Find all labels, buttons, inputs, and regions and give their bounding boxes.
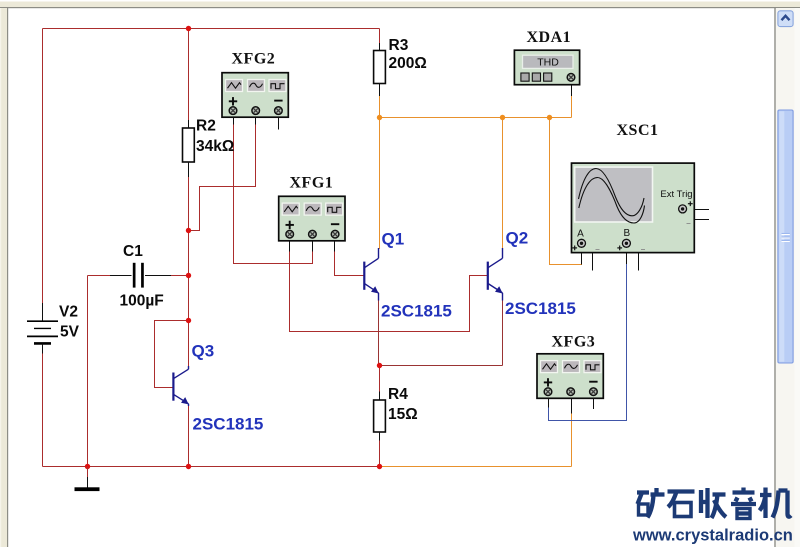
wire R4 top lead [379,366,381,394]
svg-text:Ext Trig: Ext Trig [660,189,692,200]
value 15ohm [388,406,418,423]
wire XFG2 mid pin staircase to R2 bottom node [189,124,256,231]
wire XFG1 plus pin down, across, up to Q2 base [290,251,488,332]
wire orange up to XDA1 terminal [571,95,573,118]
wire ground rail red segment [43,466,381,468]
svg-text:Q1: Q1 [382,230,405,249]
value 100uF [120,293,164,310]
svg-text:R2: R2 [196,118,216,135]
svg-text:2SC1815: 2SC1815 [193,415,264,434]
value Q1 2SC1815 [381,302,452,321]
transistor Q1 [364,248,378,301]
svg-text:15Ω: 15Ω [388,406,418,423]
label XFG3 [552,334,596,351]
value 200ohm [389,55,427,72]
function generator XFG3 [537,354,603,414]
svg-text:XSC1: XSC1 [617,122,659,139]
label XFG2 [232,51,276,68]
wire Q3 emitter down to ground rail [188,405,190,467]
wire center vertical: R2 to C1 node and Q3 node [188,176,190,321]
svg-text:XFG3: XFG3 [552,334,596,351]
label XDA1 [527,29,572,46]
svg-text:R3: R3 [389,37,409,54]
wire orange down to Q1 collector [379,118,381,250]
svg-text:THD: THD [537,56,559,68]
ground [75,477,100,491]
capacitor C1 [110,263,171,288]
watermark logo text [637,488,791,519]
wire top rail [43,28,380,30]
scrollbar thumb [778,110,793,363]
wire Q3 base loop [155,321,189,388]
wire ground stub [87,467,89,479]
junction dots orange [377,115,552,120]
transistor Q3 [173,366,188,406]
scrollbar track [776,8,800,547]
wire XFG1 minus pin to Q1 base [335,251,364,276]
scrollbar up button [778,11,793,27]
label R4 [388,386,408,403]
wire orange down to Q2 collector [502,118,504,250]
label Q2 [506,229,529,248]
resistor R3 [374,43,386,96]
svg-text:XDA1: XDA1 [527,29,572,46]
distortion analyzer XDA1 [514,50,579,96]
svg-text:2SC1815: 2SC1815 [505,299,576,318]
label R2 [196,118,216,135]
value 5V [60,324,80,341]
wire orange scope branch down and to A input [550,118,583,265]
svg-text:Q3: Q3 [192,342,215,361]
svg-text:R4: R4 [388,386,408,403]
wire left rail lower (battery - to ground rail) [42,353,44,467]
label Q3 [192,342,215,361]
resistor R2 [183,120,195,177]
svg-text:200Ω: 200Ω [389,55,427,72]
svg-text:www.crystalradio.cn: www.crystalradio.cn [632,527,793,545]
svg-text:5V: 5V [60,324,80,341]
wire collector rail orange horizontal [380,117,572,119]
label Q1 [382,230,405,249]
svg-text:Q2: Q2 [506,229,529,248]
svg-text:V2: V2 [59,304,78,321]
resistor R4 [374,392,386,441]
wire emitter rail Q1-Q2 [379,365,503,367]
transistor Q2 [488,248,503,301]
wire R4 bottom lead to ground rail [379,439,381,467]
oscilloscope XSC1 [572,163,710,270]
svg-text:2SC1815: 2SC1815 [381,302,452,321]
value Q2 2SC1815 [505,299,576,318]
wire XFG2 plus pin down and over to XFG1 mid pin [234,124,313,264]
function generator XFG2 [222,73,288,130]
wire left rail upper (top rail to battery +) [42,29,44,305]
label XSC1 [617,122,659,139]
svg-text:A: A [577,229,584,240]
wire R3 bottom to collector rail (orange) [379,95,381,118]
label XFG1 [290,175,334,192]
wire C1 horizontal red ends [88,275,189,277]
value Q3 2SC1815 [193,415,264,434]
svg-text:B: B [623,228,630,239]
svg-text:XFG1: XFG1 [290,175,334,192]
wire R3 top lead from top rail [379,29,381,46]
label V2 [59,304,78,321]
wire Q2 emitter down to emitter rail [502,300,504,366]
watermark url text [632,527,793,545]
value 34k [196,138,234,155]
battery V2 [27,303,58,354]
label C1 [123,243,143,260]
svg-text:34kΩ: 34kΩ [196,138,234,155]
wire Q1 emitter down to emitter rail [378,300,380,366]
svg-text:C1: C1 [123,243,143,260]
svg-text:100µF: 100µF [120,293,164,310]
function generator XFG1 [279,196,345,251]
wire Q3 collector to center vertical [188,321,190,370]
wire orange XFG3 mid pin to ground rail [571,413,573,467]
wire center vertical: top rail to R2 [188,29,190,122]
svg-text:XFG2: XFG2 [232,51,276,68]
wire C1 left lead down to ground rail [87,276,89,467]
wire blue scope B down, across to XFG3 plus pin [549,263,627,421]
wire ground rail orange segment [380,466,572,468]
label R3 [389,37,409,54]
